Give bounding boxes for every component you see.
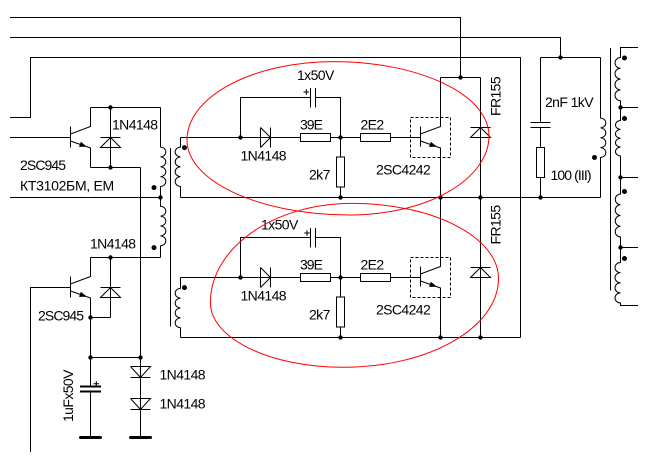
node T1 primary lower phase dot <box>152 245 157 250</box>
node R7 bottom junction <box>338 335 342 339</box>
node 2nF box top junction <box>558 55 562 59</box>
wire upper cap branch <box>241 98 341 138</box>
node Q1 emitter-diode junction <box>108 165 112 169</box>
svg-text:2E2: 2E2 <box>361 257 385 273</box>
transformer T2 secondary winding section 1 <box>615 48 638 108</box>
svg-text:1N4148: 1N4148 <box>112 117 158 133</box>
wire Q3 collector top rail <box>441 77 481 79</box>
svg-text:100 (III): 100 (III) <box>551 167 591 183</box>
resistor R1 39E upper <box>301 134 331 142</box>
svg-text:1N4148: 1N4148 <box>160 367 206 383</box>
svg-text:1x50V: 1x50V <box>261 217 299 233</box>
node lower rail left junction <box>238 275 242 279</box>
svg-text:2SC945: 2SC945 <box>38 308 84 324</box>
svg-text:FR155: FR155 <box>488 205 504 245</box>
transformer T1 secondary upper winding <box>175 138 180 198</box>
capacitor C1 1uFx50V <box>80 387 101 392</box>
svg-text:КТ3102БМ, ЕМ: КТ3102БМ, ЕМ <box>20 178 114 194</box>
transformer T2 core <box>610 48 612 291</box>
diode D4 FR155 upper <box>471 78 491 198</box>
transformer T1 primary lower winding <box>161 198 166 258</box>
transformer T2 secondary winding section 3 <box>615 178 620 248</box>
diode D2 1N4148 parallel Q2 <box>101 258 121 318</box>
node T2 primary phase dot <box>592 155 597 160</box>
svg-text:2nF 1kV: 2nF 1kV <box>545 94 594 110</box>
node Q3 emitter junction <box>438 195 442 199</box>
diode D7 1N4148 lower cell <box>261 268 271 288</box>
node D8 bottom junction <box>478 335 482 339</box>
wire Q1 collector rail <box>91 107 161 109</box>
capacitor C2 1x50V upper <box>311 88 316 108</box>
diode D3 1N4148 upper cell <box>261 128 271 148</box>
wire top line 3 / outer box right edge <box>10 58 521 338</box>
node lower rail right junction <box>338 275 342 279</box>
svg-text:1N4148: 1N4148 <box>90 236 136 252</box>
wire lower cap branch <box>241 238 341 278</box>
diode D1 1N4148 parallel Q1 <box>101 108 121 168</box>
wire emitter to cap jumper <box>91 357 141 359</box>
capacitor C5 2nF 1kV <box>531 58 551 148</box>
wire upper cell bottom rail <box>181 197 601 199</box>
node T2 tap2 junction <box>618 175 622 179</box>
ground under C1 <box>81 436 101 439</box>
wire T2 tap 1 <box>621 107 639 109</box>
diode D6 1N4148 series <box>131 399 151 410</box>
wire long vertical to bottom diodes <box>140 168 142 437</box>
node Q2 emitter junction <box>88 315 92 319</box>
svg-text:2SC945: 2SC945 <box>20 157 66 173</box>
wire T2 tap 3 <box>621 247 639 249</box>
node Q4 emitter junction <box>438 335 442 339</box>
wire Q2 emitter to diode D2 <box>91 317 111 319</box>
node R3 bottom junction <box>338 195 342 199</box>
svg-text:39E: 39E <box>300 257 323 273</box>
wire lower cell main rail <box>181 277 421 279</box>
node collector rail junction <box>458 75 462 79</box>
transformer T2 secondary winding section 2 <box>615 108 620 178</box>
node jumper right <box>138 355 142 359</box>
transformer T1 core <box>170 148 172 327</box>
svg-text:2SC4242: 2SC4242 <box>376 302 431 318</box>
wire top line 1 <box>10 18 461 78</box>
highlight ellipse 1 red <box>187 62 489 215</box>
wire upper cell main rail <box>181 137 421 139</box>
svg-text:1N4148: 1N4148 <box>241 288 287 304</box>
transformer T2 primary winding <box>601 58 606 198</box>
transistor Q4 2SC4242 lower <box>411 258 451 298</box>
node Q1 collector-diode junction <box>108 105 112 109</box>
node T2 sec4 phase dot <box>622 256 627 261</box>
svg-text:2k7: 2k7 <box>309 307 331 323</box>
transformer T1 secondary lower winding <box>175 278 180 338</box>
svg-text:2SC4242: 2SC4242 <box>376 162 431 178</box>
node T2 sec1 phase dot <box>622 56 627 61</box>
node bottom rail 100ohm junction <box>538 195 542 199</box>
node T2 sec3 phase dot <box>622 189 627 194</box>
node jumper left <box>88 355 92 359</box>
ground under diodes <box>131 436 151 439</box>
diode D5 1N4148 series <box>131 367 151 378</box>
resistor R6 2E2 lower <box>361 274 391 282</box>
wire base Q2 <box>31 288 71 453</box>
resistor R4 100 (III) <box>537 148 545 178</box>
wire lower cell bottom rail <box>181 337 521 339</box>
node T1 secondary upper phase dot <box>182 145 187 150</box>
node upper rail right junction <box>338 135 342 139</box>
node T1 primary upper phase dot <box>152 185 157 190</box>
node T2 tap1 junction <box>618 105 622 109</box>
resistor R3 2k7 upper <box>340 138 342 198</box>
highlight ellipse 2 red <box>210 203 498 367</box>
transistor Q2 2SC945 <box>71 258 91 387</box>
wire Q1 emitter rail <box>91 167 141 169</box>
wire C1 to ground <box>90 392 92 437</box>
svg-text:1N4148: 1N4148 <box>241 148 287 164</box>
resistor R5 39E lower <box>301 274 331 282</box>
svg-text:2E2: 2E2 <box>361 117 385 133</box>
svg-text:39E: 39E <box>300 117 323 133</box>
transformer T1 primary upper winding <box>161 108 166 198</box>
svg-text:FR155: FR155 <box>488 76 504 116</box>
svg-text:1x50V: 1x50V <box>297 67 335 83</box>
wire Q2 collector rail <box>91 257 161 259</box>
node upper rail left junction <box>238 135 242 139</box>
svg-text:1N4148: 1N4148 <box>160 396 206 412</box>
diode D8 FR155 lower <box>471 198 491 338</box>
resistor R2 2E2 upper <box>361 134 391 142</box>
node D4 bottom junction <box>478 195 482 199</box>
node T1 secondary lower phase dot <box>182 285 187 290</box>
wire T1 center tap <box>10 197 161 199</box>
resistor R7 2k7 lower <box>340 278 342 338</box>
node T1 center tap <box>158 195 162 199</box>
transistor Q3 2SC4242 upper <box>411 118 451 158</box>
wire T2 tap 2 <box>621 177 639 179</box>
node Q2 collector-diode junction <box>108 255 112 259</box>
node T2 tap3 junction <box>618 245 622 249</box>
wire top line 2 <box>10 38 561 58</box>
node T2 sec2 phase dot <box>622 116 627 121</box>
transformer T2 secondary winding section 4 <box>615 248 638 306</box>
wire base Q1 <box>10 137 71 139</box>
svg-text:1uFx50V: 1uFx50V <box>60 369 76 422</box>
capacitor C4 1x50V lower <box>311 228 316 248</box>
svg-text:2k7: 2k7 <box>309 167 331 183</box>
wire 2nF box top <box>541 57 601 59</box>
transistor Q1 2SC945 <box>71 108 91 168</box>
